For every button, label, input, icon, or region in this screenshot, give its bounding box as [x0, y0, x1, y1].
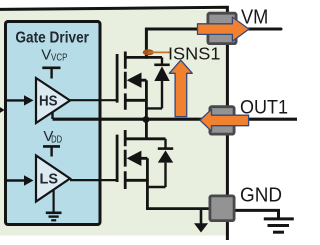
- arrow: VM current (right): [198, 17, 249, 41]
- Q1 drain stub: [124, 56, 162, 59]
- LS input arrowhead: [24, 175, 34, 185]
- ground: LS driver: [52, 190, 54, 213]
- wire: right vertical bus VM-OUT1-GND-bottom: [226, 15, 229, 240]
- wire: ISNS1 sense line: [148, 51, 170, 53]
- svg-text:Gate Driver: Gate Driver: [15, 30, 89, 47]
- Q1 substrate arrow: [127, 73, 142, 88]
- svg-text:DD: DD: [51, 135, 62, 146]
- svg-text:GND: GND: [240, 185, 282, 207]
- svg-text:LS: LS: [40, 170, 59, 187]
- svg-text:VCP: VCP: [51, 53, 68, 64]
- pad VM terminal: [208, 13, 236, 43]
- external input arrowhead at left edge: [0, 105, 5, 116]
- Q1 source stub: [124, 99, 148, 102]
- diode D1 body diode: [161, 57, 163, 64]
- wire: HS output to gate: [70, 99, 118, 101]
- wire: chip top border to VM pad: [0, 7, 227, 16]
- wire: LS output to gate: [70, 179, 118, 181]
- wire: VVCP stub: [50, 68, 52, 79]
- Q2 gate bar: [116, 135, 119, 182]
- pad GND terminal: [210, 196, 234, 221]
- Q2 substrate arrow: [127, 151, 142, 166]
- node ISNS1 sense dot: [143, 49, 154, 55]
- svg-text:VM: VM: [241, 7, 268, 29]
- op-amp HS driver: [36, 78, 70, 123]
- chip background region: [0, 10, 229, 236]
- VVCP supply bar: [42, 67, 60, 70]
- svg-text:ISNS1: ISNS1: [168, 44, 221, 64]
- Q2 source stub: [124, 179, 149, 182]
- wire: VDD stub: [50, 146, 52, 156]
- wire: OUT1 horizontal: [53, 118, 298, 121]
- HS input arrowhead: [24, 95, 34, 105]
- Q2 arrow tail and source drop: [139, 158, 147, 208]
- Q2 drain stub and riser: [124, 120, 166, 139]
- svg-text:OUT1: OUT1: [240, 97, 288, 118]
- wire: HS input: [6, 99, 25, 101]
- wire: LS input: [6, 179, 25, 181]
- current arrow down to GND: [200, 210, 203, 224]
- Q2 channel segments: [124, 130, 127, 189]
- wire: source to GND pad: [146, 207, 210, 210]
- pad OUT1 terminal: [210, 107, 234, 134]
- Gate Driver box: [6, 22, 101, 225]
- svg-text:V: V: [41, 47, 51, 64]
- node: switch node junction: [143, 116, 150, 123]
- arrow: ISNS1 current (up): [169, 60, 192, 116]
- Q1 arrow tail and source drop: [139, 80, 146, 119]
- svg-text:HS: HS: [39, 92, 58, 109]
- wire: HS source feedback stub: [51, 112, 53, 119]
- Q1 channel segments: [124, 52, 127, 110]
- op-amp LS driver: [36, 156, 70, 202]
- wire: VM drain riser and horizontal: [146, 29, 281, 57]
- VDD supply bar: [43, 145, 60, 148]
- Q1 gate bar: [116, 54, 119, 103]
- diode D2 body diode: [164, 139, 166, 148]
- wire: GND pad to ground symbol: [236, 210, 279, 217]
- ground symbol: [264, 217, 294, 220]
- arrow: OUT1 current (left): [200, 109, 249, 131]
